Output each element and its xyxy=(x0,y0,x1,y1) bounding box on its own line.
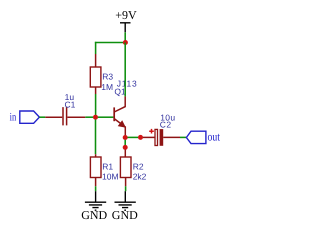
capacitor C2 xyxy=(143,129,180,146)
svg-text:in: in xyxy=(10,112,17,124)
svg-text:R3: R3 xyxy=(102,71,113,81)
junction dot emitter xyxy=(123,135,128,140)
wire C1 to base junction xyxy=(85,116,93,118)
svg-text:10M: 10M xyxy=(102,171,119,181)
wire R1 to GND xyxy=(95,186,97,191)
junction dot R2 top xyxy=(123,145,128,150)
resistor R3 xyxy=(90,54,101,94)
junction dot top xyxy=(123,40,128,45)
svg-text:R1: R1 xyxy=(102,161,113,171)
svg-text:C1: C1 xyxy=(65,99,76,109)
junction dot C2 left xyxy=(138,135,143,140)
wire C2 to out port xyxy=(180,136,186,138)
port in xyxy=(10,111,40,124)
svg-text:GND: GND xyxy=(112,208,138,222)
resistor R1 xyxy=(90,154,101,186)
svg-text:out: out xyxy=(208,129,221,143)
resistor R2 xyxy=(120,157,131,186)
wire R2 top lead xyxy=(124,150,126,158)
wire base junction to Q1 xyxy=(98,116,114,118)
ground GND2 xyxy=(112,191,138,222)
wire base junction down to R1 xyxy=(95,120,97,155)
wire top horizontal xyxy=(95,42,125,44)
wire collector from top junction xyxy=(124,43,126,97)
junction dot base xyxy=(93,115,98,120)
ground GND1 xyxy=(81,191,107,222)
wire emitter junction right xyxy=(128,136,139,138)
svg-text:Q1: Q1 xyxy=(114,86,126,96)
capacitor C1 xyxy=(45,107,85,125)
svg-text:R2: R2 xyxy=(133,161,144,171)
power +9V xyxy=(115,8,137,33)
svg-text:+9V: +9V xyxy=(115,8,137,22)
svg-text:2k2: 2k2 xyxy=(133,171,147,181)
wire in port to C1 xyxy=(39,116,45,118)
wire R2 to GND xyxy=(125,186,127,191)
wire between emitter dots xyxy=(124,140,126,145)
wire R3 to base junction xyxy=(95,94,97,117)
wire down to R3 xyxy=(95,42,97,54)
transistor Q1 xyxy=(114,96,125,135)
svg-text:1M: 1M xyxy=(101,82,113,92)
port out xyxy=(186,129,220,143)
svg-text:C2: C2 xyxy=(160,120,172,130)
svg-text:GND: GND xyxy=(81,208,107,222)
wire power stem xyxy=(124,32,126,42)
